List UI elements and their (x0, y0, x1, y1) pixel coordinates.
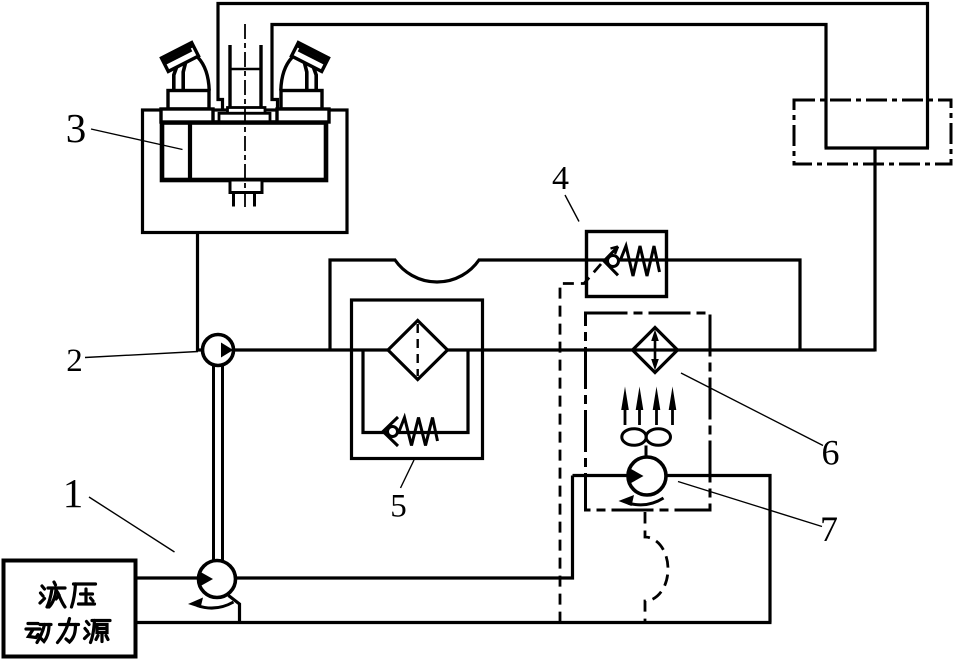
cooler diamond (633, 328, 678, 373)
svg-text:3: 3 (66, 105, 87, 151)
char li (force) (58, 619, 79, 643)
spindle flange steps (228, 108, 266, 114)
line from power source to pump 1 (136, 576, 200, 579)
relief valve 4 (587, 232, 667, 297)
svg-text:6: 6 (822, 433, 840, 473)
wire from actuator down to main line (873, 148, 876, 352)
heat arrow d (671, 398, 674, 425)
valve 4 spring (620, 246, 660, 276)
dashed pilot line from valve 4 down to return line (560, 264, 601, 622)
check point 2: circle with flow triangle (203, 335, 234, 366)
fan blades (622, 429, 646, 446)
heat arrow b (638, 398, 641, 425)
bypass loop with arc dip through relief valve 4 (330, 260, 800, 352)
wire second line from head to actuator left side (272, 25, 826, 149)
bypass check valve seat (383, 417, 398, 446)
fan stem (645, 446, 648, 458)
pump 7: circulation pump (619, 457, 667, 506)
head outer box (143, 110, 348, 233)
cooler 6 (621, 328, 677, 458)
filter 5 assembly (352, 300, 483, 459)
dash-dot enclosure around actuator top right (794, 100, 951, 164)
head block divider (188, 123, 192, 181)
char yuan (source) (85, 621, 111, 643)
spindle cylinder walls (230, 45, 261, 108)
leader line 1 (85, 129, 823, 552)
chain-line enclosure around cooler 6 (586, 313, 711, 510)
valve 4 ball (608, 256, 619, 267)
cooler double arrow (654, 334, 657, 366)
leader line 6 (681, 373, 823, 446)
line from pump 1 to tank box, up to pump-7 shelf (235, 476, 573, 579)
filter outer box (352, 300, 483, 459)
svg-text:1: 1 (63, 470, 84, 516)
svg-text:5: 5 (390, 489, 407, 525)
dashed drain line with bulge below pump 7 (645, 512, 668, 622)
bypass ball (388, 427, 398, 437)
pump 1: main hydraulic pump (188, 561, 236, 609)
pump 1 bottom connector to return line (229, 596, 240, 623)
machine head assembly 3 (143, 24, 348, 233)
leader line 3 (91, 129, 183, 150)
double suction lines from point 2 to pump 1 (212, 364, 215, 562)
actuator box bottom edge (825, 146, 930, 149)
valve 4 seat (604, 247, 618, 276)
heat arrow c (655, 398, 658, 425)
valve 4 seat barbs (611, 247, 619, 255)
char ya (pressure) (72, 584, 96, 607)
valve 4 box (587, 232, 667, 297)
right pedestal (281, 91, 322, 110)
pump 7 rotation arrow (628, 498, 664, 505)
filter mesh dashed line (417, 324, 419, 376)
leader line 5 (401, 460, 415, 488)
char ye (liquid) (40, 582, 65, 607)
svg-text:2: 2 (66, 343, 83, 379)
left nozzle (162, 43, 210, 91)
char dong (move) (26, 624, 51, 643)
bottom return line (136, 621, 772, 624)
pump-7 shelf top edge and right tank wall (573, 476, 771, 623)
bypass spring (399, 418, 438, 446)
main pressure line (233, 348, 875, 351)
head foot legs (234, 193, 255, 207)
filter inner loop (363, 352, 468, 433)
leader line 4 (565, 195, 579, 222)
right nozzle (mirror) (281, 43, 329, 91)
wire top line from machine head to top-right actuator (218, 4, 928, 149)
hydraulic power source label text (26, 582, 110, 643)
leader line 7 (678, 482, 822, 527)
head foot block (230, 180, 262, 193)
pump 1 rotation arrow (197, 602, 234, 608)
head main block (162, 123, 326, 181)
spindle piston line (230, 68, 261, 71)
svg-text:7: 7 (820, 509, 838, 549)
leader line 2 (85, 352, 198, 358)
svg-text:4: 4 (552, 160, 569, 197)
numeral labels (63, 105, 840, 549)
left pedestal (168, 91, 209, 110)
wire from head down to check point 2 (198, 232, 204, 350)
head centre dash-dot line (244, 24, 246, 210)
hydraulic power source box (4, 561, 136, 657)
heat arrow a (624, 398, 627, 425)
filter diamond (388, 321, 448, 380)
